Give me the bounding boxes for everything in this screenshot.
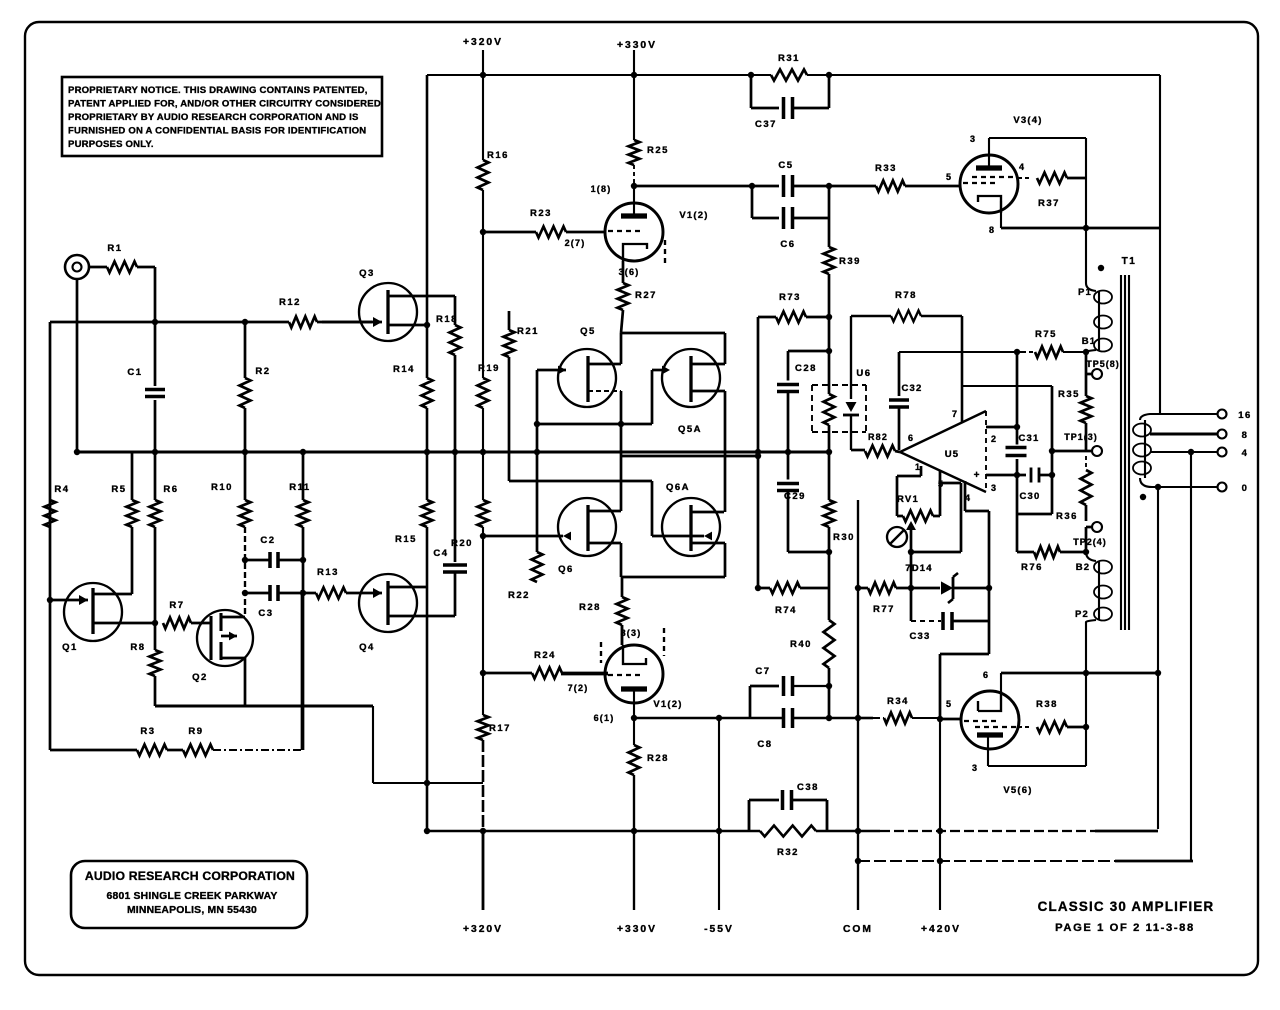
svg-text:R21: R21	[517, 326, 539, 337]
svg-text:R9: R9	[188, 726, 203, 737]
svg-text:B1: B1	[1082, 336, 1097, 347]
svg-text:Q2: Q2	[192, 672, 208, 683]
svg-text:7D14: 7D14	[905, 563, 933, 574]
svg-text:PAGE 1 OF 2 11-3-88: PAGE 1 OF 2 11-3-88	[1055, 922, 1195, 934]
svg-text:Q6A: Q6A	[666, 482, 690, 493]
svg-text:MINNEAPOLIS, MN 55430: MINNEAPOLIS, MN 55430	[127, 905, 257, 916]
svg-text:COM: COM	[843, 924, 873, 935]
svg-text:PATENT APPLIED FOR, AND/OR OTH: PATENT APPLIED FOR, AND/OR OTHER CIRCUIT…	[68, 99, 381, 110]
svg-text:P2: P2	[1075, 609, 1089, 620]
svg-text:R20: R20	[451, 538, 473, 549]
svg-text:+330V: +330V	[617, 924, 657, 935]
svg-text:C5: C5	[778, 160, 793, 171]
svg-text:+420V: +420V	[921, 924, 961, 935]
svg-text:3: 3	[972, 763, 978, 773]
svg-text:C32: C32	[901, 383, 922, 394]
svg-text:8: 8	[989, 225, 995, 235]
svg-text:-55V: -55V	[704, 924, 734, 935]
svg-text:R23: R23	[530, 208, 552, 219]
svg-text:C31: C31	[1018, 433, 1039, 444]
svg-text:R14: R14	[393, 364, 415, 375]
svg-text:TP1(3): TP1(3)	[1064, 432, 1098, 442]
svg-text:R4: R4	[54, 484, 69, 495]
svg-text:7: 7	[952, 409, 958, 419]
svg-text:R31: R31	[778, 53, 800, 64]
svg-text:R11: R11	[289, 482, 310, 493]
svg-text:TP2(4): TP2(4)	[1073, 537, 1107, 547]
svg-text:4: 4	[1019, 162, 1025, 172]
svg-text:R36: R36	[1056, 511, 1078, 522]
svg-text:R77: R77	[873, 604, 895, 615]
svg-text:0: 0	[1242, 483, 1249, 494]
svg-text:R8: R8	[130, 642, 145, 653]
svg-text:16: 16	[1238, 410, 1252, 421]
svg-text:R35: R35	[1058, 389, 1080, 400]
svg-text:7(2): 7(2)	[568, 683, 589, 693]
svg-text:R78: R78	[895, 290, 917, 301]
svg-text:R13: R13	[317, 567, 339, 578]
svg-text:PROPRIETARY BY AUDIO RESEARCH: PROPRIETARY BY AUDIO RESEARCH CORPORATIO…	[68, 112, 359, 123]
svg-text:CLASSIC 30 AMPLIFIER: CLASSIC 30 AMPLIFIER	[1038, 899, 1215, 914]
svg-text:P1: P1	[1078, 287, 1092, 298]
svg-text:U6: U6	[856, 368, 871, 379]
svg-text:C37: C37	[755, 119, 777, 130]
svg-text:6801 SHINGLE CREEK PARKWAY: 6801 SHINGLE CREEK PARKWAY	[107, 891, 278, 902]
svg-text:6: 6	[983, 670, 989, 680]
svg-text:C3: C3	[258, 608, 273, 619]
svg-text:R75: R75	[1035, 329, 1057, 340]
svg-text:2(7): 2(7)	[565, 238, 586, 248]
svg-text:Q1: Q1	[62, 642, 78, 653]
svg-text:R15: R15	[395, 534, 417, 545]
svg-text:+330V: +330V	[617, 40, 657, 51]
svg-text:R7: R7	[169, 600, 184, 611]
svg-text:3: 3	[970, 134, 976, 144]
svg-text:R37: R37	[1038, 198, 1060, 209]
svg-text:R27: R27	[635, 290, 657, 301]
svg-text:R33: R33	[875, 163, 897, 174]
svg-text:C38: C38	[797, 782, 819, 793]
svg-text:4: 4	[1242, 448, 1249, 459]
svg-text:R10: R10	[211, 482, 233, 493]
svg-text:R73: R73	[779, 292, 801, 303]
svg-text:V5(6): V5(6)	[1003, 785, 1032, 796]
svg-text:3: 3	[991, 483, 997, 493]
svg-text:B2: B2	[1076, 562, 1091, 573]
svg-text:R3: R3	[140, 726, 155, 737]
svg-text:U5: U5	[945, 449, 960, 460]
svg-text:C4: C4	[433, 548, 448, 559]
svg-text:R24: R24	[534, 650, 556, 661]
svg-text:8: 8	[1242, 430, 1249, 441]
svg-text:R28: R28	[579, 602, 601, 613]
svg-text:R30: R30	[833, 532, 855, 543]
svg-text:RV1: RV1	[897, 494, 919, 505]
svg-text:Q6: Q6	[558, 564, 574, 575]
svg-text:2: 2	[991, 434, 997, 444]
svg-text:C8: C8	[757, 739, 772, 750]
svg-text:C6: C6	[780, 239, 795, 250]
svg-text:R19: R19	[478, 363, 500, 374]
svg-text:8(3): 8(3)	[621, 628, 642, 638]
svg-text:C29: C29	[784, 491, 806, 502]
svg-text:Q4: Q4	[359, 642, 375, 653]
svg-text:V3(4): V3(4)	[1013, 115, 1042, 126]
svg-text:C33: C33	[909, 631, 930, 642]
svg-text:C28: C28	[795, 363, 817, 374]
svg-text:C7: C7	[755, 666, 770, 677]
svg-text:C30: C30	[1019, 491, 1040, 502]
svg-text:R32: R32	[777, 847, 799, 858]
svg-text:R25: R25	[647, 145, 669, 156]
svg-text:R16: R16	[487, 150, 509, 161]
svg-text:R17: R17	[489, 723, 511, 734]
svg-text:R6: R6	[163, 484, 178, 495]
svg-text:R5: R5	[111, 484, 126, 495]
svg-text:FURNISHED ON A CONFIDENTIAL BA: FURNISHED ON A CONFIDENTIAL BASIS FOR ID…	[68, 126, 366, 137]
svg-text:C1: C1	[127, 367, 142, 378]
svg-text:5: 5	[946, 699, 952, 709]
svg-text:AUDIO RESEARCH CORPORATION: AUDIO RESEARCH CORPORATION	[85, 869, 295, 883]
svg-text:Q5A: Q5A	[678, 424, 702, 435]
svg-text:R38: R38	[1036, 699, 1058, 710]
svg-text:R34: R34	[887, 696, 909, 707]
svg-text:R28: R28	[647, 753, 669, 764]
svg-text:R82: R82	[868, 432, 888, 442]
svg-text:R18: R18	[436, 314, 458, 325]
svg-text:PURPOSES ONLY.: PURPOSES ONLY.	[68, 139, 154, 150]
svg-text:6(1): 6(1)	[594, 713, 615, 723]
svg-text:R2: R2	[255, 366, 270, 377]
svg-text:R22: R22	[508, 590, 530, 601]
svg-text:+320V: +320V	[463, 37, 503, 48]
svg-text:Q5: Q5	[580, 326, 596, 337]
svg-text:V1(2): V1(2)	[679, 210, 708, 221]
svg-text:PROPRIETARY NOTICE. THIS DRA: PROPRIETARY NOTICE. THIS DRAWING CONTAIN…	[68, 85, 368, 96]
svg-text:6: 6	[908, 433, 914, 443]
svg-text:R39: R39	[839, 256, 861, 267]
svg-text:C2: C2	[260, 535, 275, 546]
svg-text:R76: R76	[1021, 562, 1043, 573]
svg-text:TP5(8): TP5(8)	[1086, 359, 1120, 369]
svg-text:R40: R40	[790, 639, 812, 650]
svg-text:R12: R12	[279, 297, 301, 308]
svg-text:Q3: Q3	[359, 268, 375, 279]
svg-text:5: 5	[946, 172, 952, 182]
svg-text:1(8): 1(8)	[591, 184, 612, 194]
svg-text:+320V: +320V	[463, 924, 503, 935]
svg-text:R74: R74	[775, 605, 797, 616]
svg-text:+: +	[974, 470, 981, 481]
svg-text:R1: R1	[107, 243, 122, 254]
svg-text:V1(2): V1(2)	[653, 699, 682, 710]
svg-text:T1: T1	[1122, 256, 1137, 267]
